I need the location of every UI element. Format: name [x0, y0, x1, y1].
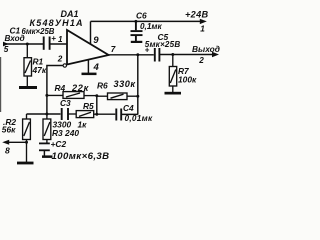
svg-text:9: 9: [93, 35, 99, 46]
wire junction down to R5: [96, 96, 98, 114]
svg-text:R4: R4: [55, 83, 66, 93]
svg-text:Выход: Выход: [192, 44, 220, 54]
wire C4 to feedback vertical: [121, 113, 138, 115]
svg-text:330к: 330к: [114, 79, 137, 89]
node R5 right junction: [95, 113, 98, 116]
ground under R1: [19, 86, 37, 89]
svg-text:0,01мк: 0,01мк: [125, 114, 153, 123]
svg-text:С4: С4: [123, 103, 134, 113]
pin 9 wire: [90, 21, 92, 44]
lower rail wire: [27, 113, 61, 115]
svg-text:2: 2: [57, 55, 63, 64]
resistor R3: [43, 114, 51, 143]
svg-text:С1: С1: [10, 26, 21, 36]
ground under C2: [42, 155, 53, 158]
svg-text:8: 8: [5, 145, 10, 155]
terminal 8 arrow: [2, 140, 9, 145]
resistor R2: [23, 114, 31, 162]
+24V arrow: [200, 19, 207, 24]
svg-text:7: 7: [111, 45, 116, 54]
node R1 junction: [26, 43, 29, 46]
capacitor C5: [155, 48, 160, 62]
capacitor C1: [44, 37, 50, 50]
ground under C6: [131, 41, 143, 43]
pin 4 wire: [87, 60, 89, 73]
output wire: [109, 54, 154, 56]
capacitor C6: [131, 21, 143, 41]
node R6 to feedback vertical: [136, 95, 139, 98]
svg-text:47к: 47к: [32, 65, 47, 75]
op-amp DA1: [67, 30, 109, 65]
node feedback takeoff: [136, 53, 139, 56]
svg-text:1: 1: [200, 25, 205, 34]
resistor R6: [97, 93, 138, 100]
svg-text:6мк×25В: 6мк×25В: [22, 27, 55, 36]
ground under R2: [17, 162, 34, 165]
capacitor C4: [116, 109, 121, 121]
svg-text:С3: С3: [60, 98, 71, 108]
svg-text:+С2: +С2: [51, 139, 67, 149]
svg-text:100мк×6,3В: 100мк×6,3В: [52, 151, 110, 162]
node R4-R6-R5 junction: [95, 94, 98, 97]
wire R5 junction to C4: [97, 113, 116, 115]
svg-text:R5: R5: [83, 101, 94, 111]
capacitor C3: [62, 108, 68, 120]
wire C5 to output: [159, 54, 213, 56]
feedback vertical wire: [137, 55, 139, 115]
node R7 junction: [171, 53, 174, 56]
+24V supply rail: [91, 20, 202, 22]
input terminal Вход: [4, 43, 44, 45]
ground at pin 4: [82, 73, 97, 76]
resistor R4: [47, 92, 97, 99]
op-amp inverting input bubble: [63, 64, 66, 67]
node C6 junction: [134, 20, 137, 23]
Выход arrow: [212, 52, 219, 57]
svg-text:+24В: +24В: [185, 10, 208, 20]
svg-text:100к: 100к: [178, 75, 197, 85]
svg-text:С6: С6: [136, 10, 147, 20]
wire pin2 input: [47, 66, 63, 115]
svg-text:2: 2: [198, 56, 204, 65]
resistor R1: [24, 44, 32, 87]
svg-text:5мк×25В: 5мк×25В: [145, 40, 181, 49]
svg-text:0,1мк: 0,1мк: [140, 22, 162, 31]
node terminal 8 junction: [25, 141, 28, 144]
svg-text:R3 240: R3 240: [52, 128, 79, 138]
svg-text:1: 1: [58, 35, 63, 44]
ground under R7: [165, 92, 182, 95]
page edge line: [0, 57, 1, 112]
svg-text:R6: R6: [97, 81, 108, 91]
svg-text:4: 4: [93, 62, 100, 73]
svg-text:+: +: [51, 34, 56, 43]
node rail junction: [45, 113, 48, 116]
wire C1 to op-amp: [50, 43, 67, 45]
resistor R7: [169, 55, 176, 93]
svg-text:56к: 56к: [2, 124, 16, 134]
svg-text:22к: 22к: [71, 83, 90, 93]
node R4 branch: [45, 94, 48, 97]
svg-text:5: 5: [4, 45, 9, 54]
resistor R5: [68, 111, 97, 118]
capacitor C2: [39, 143, 50, 150]
terminal 8 wire: [7, 141, 27, 143]
